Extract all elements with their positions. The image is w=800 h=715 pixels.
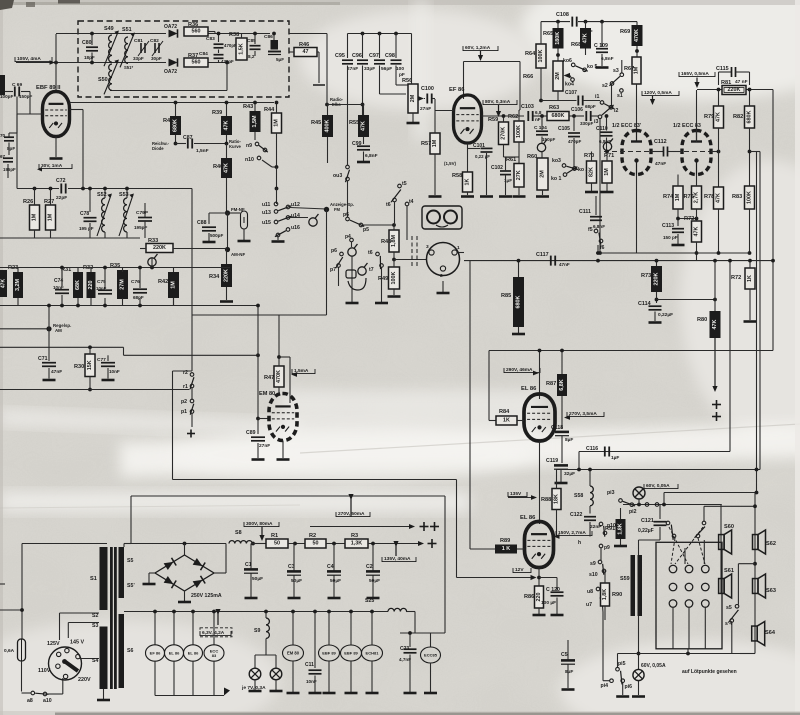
arrow	[215, 609, 220, 625]
wire	[591, 183, 593, 191]
wire	[139, 298, 141, 306]
svg-text:C112: C112	[654, 139, 667, 145]
svg-text:27nF: 27nF	[347, 66, 358, 72]
switch contact n9	[246, 142, 268, 152]
arrow	[409, 524, 415, 529]
wire	[591, 152, 593, 162]
svg-text:100 µF: 100 µF	[541, 600, 556, 606]
resistor (edge) 47K	[0, 270, 7, 297]
capacitor C117	[536, 252, 570, 267]
svg-text:8,2: 8,2	[248, 54, 255, 59]
svg-text:470pF: 470pF	[568, 139, 581, 144]
ground	[143, 583, 156, 586]
ground	[407, 122, 420, 125]
junction	[676, 217, 680, 221]
wire feedback	[172, 371, 174, 480]
wire	[176, 143, 187, 145]
svg-text:ou3: ou3	[333, 173, 342, 179]
svg-text:47K: 47K	[583, 33, 589, 43]
ground	[672, 244, 685, 247]
capacitor C98	[385, 53, 405, 78]
node Regelsp. AM	[46, 326, 51, 331]
resistor R57	[421, 133, 440, 154]
svg-text:C83: C83	[206, 36, 215, 42]
wire	[604, 606, 606, 620]
svg-text:ko6: ko6	[563, 58, 572, 64]
ground	[499, 195, 512, 198]
svg-text:s2: s2	[602, 83, 608, 89]
svg-text:p6: p6	[343, 212, 349, 218]
capacitor C89	[246, 430, 270, 449]
resistor R71	[602, 153, 614, 183]
wire	[17, 298, 19, 306]
wire	[400, 632, 445, 634]
wire	[517, 548, 525, 550]
svg-text:R58: R58	[452, 173, 462, 179]
svg-text:1,8K: 1,8K	[602, 589, 608, 600]
wire	[327, 137, 329, 163]
svg-text:30V, 1mA: 30V, 1mA	[41, 163, 63, 169]
junction	[88, 388, 92, 392]
switch contact ou3	[333, 165, 350, 182]
wire	[505, 176, 507, 196]
svg-text:t7: t7	[369, 267, 374, 273]
wire	[589, 522, 591, 537]
wire anode ECC83b	[696, 90, 698, 142]
tone control	[148, 254, 158, 266]
junction	[394, 32, 398, 36]
arrow	[50, 60, 56, 65]
svg-text:pi4: pi4	[601, 683, 609, 689]
wire	[254, 655, 256, 668]
ground	[238, 240, 251, 243]
svg-text:i3: i3	[594, 119, 598, 125]
ground	[551, 614, 564, 617]
junction	[49, 187, 53, 191]
wire	[16, 114, 18, 133]
wire	[191, 189, 193, 372]
ground	[245, 597, 258, 600]
resistor R74	[663, 186, 683, 209]
switch contact u16	[275, 225, 300, 237]
capacitor C4	[327, 564, 341, 584]
wire	[606, 116, 608, 131]
label 120V, 0,5mA	[642, 90, 679, 96]
switch contact a8-a10	[27, 691, 52, 704]
wire	[718, 90, 720, 107]
wire	[347, 34, 349, 59]
wire	[668, 151, 682, 153]
junction	[150, 266, 154, 270]
wire	[194, 143, 227, 145]
coil S51	[120, 27, 135, 67]
svg-text:R45: R45	[311, 120, 321, 126]
capacitor C88	[197, 220, 223, 238]
switch contact p6-p7	[330, 248, 343, 273]
wire	[67, 623, 69, 639]
svg-text:C119: C119	[546, 458, 558, 464]
wire	[350, 661, 352, 692]
wire	[517, 420, 524, 422]
wire bus	[729, 261, 731, 452]
switch contact i3	[594, 105, 614, 125]
wire	[326, 543, 345, 545]
wire	[21, 91, 30, 93]
wire	[226, 144, 228, 159]
svg-text:C103: C103	[521, 104, 534, 110]
svg-text:R72: R72	[731, 275, 741, 281]
wire cathode EM80	[282, 441, 284, 459]
capacitor C95	[335, 53, 358, 72]
svg-text:R49: R49	[378, 276, 388, 282]
speaker S63	[753, 574, 776, 598]
tube heater EBF 89 b	[341, 645, 362, 661]
svg-text:82K: 82K	[589, 167, 595, 177]
svg-text:56pF: 56pF	[381, 66, 392, 72]
wire	[202, 62, 227, 64]
DIN connector	[426, 243, 460, 280]
wire	[104, 268, 106, 290]
junction	[596, 251, 600, 255]
wire	[468, 148, 481, 150]
wire	[314, 676, 316, 693]
svg-text:1: 1	[457, 245, 460, 251]
wire	[470, 548, 495, 550]
junction	[361, 32, 365, 36]
switch contact s9-s10	[589, 560, 607, 578]
svg-text:R46: R46	[299, 42, 309, 48]
resistor R78	[704, 187, 724, 209]
svg-text:C81: C81	[134, 38, 143, 44]
wire	[289, 357, 291, 403]
switch contact p10-p9	[599, 522, 616, 536]
wire	[371, 612, 373, 646]
resistor R67	[624, 57, 641, 84]
svg-text:110V: 110V	[38, 668, 51, 674]
wire	[350, 612, 352, 646]
wire	[362, 34, 364, 59]
svg-text:470pF: 470pF	[224, 43, 237, 48]
wire	[703, 506, 705, 521]
wire	[351, 256, 353, 302]
wire	[749, 261, 751, 268]
svg-text:1/2 ECC 83': 1/2 ECC 83'	[612, 123, 641, 129]
svg-text:S3: S3	[92, 623, 98, 629]
resistor R26	[23, 199, 40, 230]
svg-text:R43: R43	[243, 104, 253, 110]
wire	[214, 32, 216, 34]
svg-text:t5: t5	[402, 181, 407, 187]
capacitor C99	[352, 141, 378, 159]
junction	[728, 259, 732, 263]
wire	[556, 598, 558, 615]
wire	[749, 90, 751, 107]
svg-text:C115: C115	[716, 66, 729, 72]
ground	[649, 321, 662, 324]
capacitor C108	[556, 12, 593, 35]
resistor R43	[243, 104, 261, 132]
wire	[213, 612, 215, 646]
wire lower rail	[40, 62, 166, 64]
svg-text:145 V: 145 V	[70, 640, 84, 646]
svg-text:5µF: 5µF	[276, 57, 284, 62]
svg-text:33pF: 33pF	[133, 56, 144, 61]
resistor R38	[229, 32, 247, 60]
wire	[583, 100, 600, 102]
svg-text:220K: 220K	[654, 272, 660, 285]
svg-text:S60: S60	[724, 524, 734, 530]
svg-text:27nF: 27nF	[259, 443, 270, 449]
svg-text:R42: R42	[158, 279, 168, 285]
junction	[717, 251, 721, 255]
wire	[621, 60, 623, 73]
wire	[254, 132, 256, 140]
svg-text:i1: i1	[595, 94, 599, 100]
wire	[606, 138, 608, 152]
wire	[589, 470, 591, 487]
junction	[408, 631, 412, 635]
svg-text:s 4: s 4	[725, 621, 732, 627]
wire anode	[482, 115, 525, 117]
wire	[243, 229, 245, 240]
svg-text:1,8K: 1,8K	[618, 523, 624, 534]
svg-text:S62: S62	[766, 541, 776, 547]
wire primary top	[22, 543, 107, 545]
svg-text:6,3V, 4,2A: 6,3V, 4,2A	[202, 630, 225, 636]
svg-text:1M: 1M	[32, 213, 38, 221]
svg-text:AM-NF: AM-NF	[231, 252, 245, 257]
wire	[395, 66, 397, 86]
wire anode EL86	[539, 351, 541, 400]
wire s2-i2	[611, 86, 613, 106]
ground	[616, 695, 629, 698]
wire	[486, 153, 488, 195]
label 1,5mA	[292, 368, 315, 374]
resistor R56	[402, 78, 418, 113]
wire	[638, 540, 640, 555]
junction	[662, 503, 666, 507]
terminal	[405, 202, 409, 206]
wire	[218, 60, 220, 63]
wire	[414, 612, 416, 634]
svg-text:EL 86: EL 86	[521, 386, 537, 392]
junction	[275, 101, 279, 105]
svg-text:p5: p5	[363, 227, 369, 233]
junction	[90, 61, 94, 65]
wire	[338, 268, 340, 287]
svg-text:1M: 1M	[604, 168, 610, 176]
resistor R45	[311, 115, 333, 137]
wire	[61, 268, 63, 287]
ground	[288, 597, 301, 600]
wire	[327, 104, 363, 106]
svg-text:220K: 220K	[224, 269, 230, 282]
svg-text:27nF: 27nF	[420, 106, 431, 112]
speaker S64	[752, 622, 776, 646]
wire bus right	[772, 90, 774, 351]
wire	[16, 97, 18, 134]
svg-text:47K: 47K	[361, 121, 367, 131]
wire	[59, 613, 61, 640]
svg-text:22pF: 22pF	[56, 195, 67, 201]
svg-text:OA72: OA72	[164, 24, 177, 30]
capacitor C85	[247, 38, 261, 59]
svg-text:S6: S6	[127, 648, 133, 654]
wire	[434, 111, 436, 134]
tube heater EM 80	[283, 645, 304, 661]
svg-text:S51: S51	[122, 27, 132, 33]
svg-text:R26: R26	[23, 199, 33, 205]
arrow	[564, 415, 570, 420]
wire	[278, 387, 280, 394]
wire	[541, 116, 543, 130]
svg-text:400K: 400K	[325, 119, 331, 132]
svg-text:C111: C111	[579, 209, 591, 215]
wire	[124, 354, 259, 356]
wire	[363, 105, 365, 116]
arrow	[393, 541, 398, 556]
label 290V, 46mA	[504, 367, 540, 373]
lamp dial lamp 2	[270, 668, 282, 680]
svg-text:60V, 0,05A: 60V, 0,05A	[641, 663, 666, 669]
capacitor C101	[473, 143, 493, 159]
wire	[226, 178, 228, 213]
junction	[753, 562, 757, 566]
wire	[663, 493, 665, 505]
wire	[0, 305, 258, 307]
capacitor C100	[420, 86, 434, 112]
wire	[89, 189, 91, 213]
svg-text:s1: s1	[617, 93, 623, 99]
resistor R31	[61, 267, 83, 298]
wire	[154, 661, 156, 696]
junction	[713, 259, 717, 263]
resistor R37	[184, 53, 208, 67]
wire	[34, 189, 36, 206]
svg-text:0,22 µF: 0,22 µF	[475, 154, 490, 159]
svg-text:R74: R74	[663, 194, 674, 200]
wire lamp bus	[623, 504, 722, 506]
junction	[256, 353, 260, 357]
wire	[504, 156, 520, 158]
svg-text:18pF: 18pF	[84, 55, 95, 60]
junction	[695, 251, 699, 255]
wire	[123, 544, 125, 548]
svg-text:EM 80: EM 80	[259, 391, 275, 397]
tube heater ECH 81	[362, 645, 383, 661]
wire	[29, 92, 31, 115]
junction	[225, 61, 229, 65]
svg-text:120V, 0,5mA: 120V, 0,5mA	[644, 90, 672, 96]
wire	[688, 607, 690, 648]
wire	[714, 261, 716, 311]
wire	[318, 52, 320, 83]
wire	[89, 223, 91, 238]
tube heater ECC 83	[204, 645, 224, 661]
junction	[349, 610, 353, 614]
junction	[538, 349, 542, 353]
wire	[463, 62, 465, 100]
svg-text:80V, 0,3mA: 80V, 0,3mA	[485, 99, 511, 105]
svg-text:EL 86: EL 86	[188, 651, 199, 656]
svg-text:195pF: 195pF	[3, 167, 16, 172]
ground	[178, 601, 191, 604]
wire	[314, 612, 316, 669]
svg-text:EL 86: EL 86	[169, 651, 180, 656]
capacitor C116	[586, 446, 619, 461]
wire	[293, 544, 295, 571]
svg-text:R65: R65	[543, 31, 553, 37]
junction	[748, 88, 752, 92]
svg-text:C84: C84	[199, 51, 208, 57]
earphone	[346, 270, 366, 290]
svg-text:60V, 0,05A: 60V, 0,05A	[646, 483, 670, 489]
wire	[602, 600, 603, 612]
wire	[557, 469, 761, 471]
wire	[61, 270, 63, 286]
wire	[505, 157, 507, 171]
svg-text:FM: FM	[334, 207, 341, 212]
jack Q	[358, 263, 368, 275]
svg-text:a8: a8	[27, 698, 33, 704]
junction	[378, 32, 382, 36]
wire	[622, 683, 624, 696]
wire	[657, 299, 716, 301]
svg-text:0,22µF: 0,22µF	[658, 312, 673, 318]
junction	[277, 355, 281, 359]
arrow	[259, 527, 264, 541]
svg-text:560: 560	[192, 29, 201, 35]
wire	[16, 62, 40, 64]
svg-text:1,5nF: 1,5nF	[196, 148, 209, 154]
wire	[328, 661, 330, 692]
ground	[480, 195, 493, 198]
svg-text:s3: s3	[613, 68, 619, 74]
switch contact t6-t7	[368, 250, 384, 273]
resistor R30	[74, 354, 95, 377]
wire	[48, 306, 50, 362]
wire	[277, 237, 279, 240]
switch contact p2-p1	[181, 399, 194, 415]
svg-text:15K: 15K	[87, 360, 93, 370]
switch contact switch a	[666, 521, 677, 540]
capacitor C70	[0, 133, 15, 151]
capacitor C67	[0, 154, 16, 172]
resistor R76	[684, 186, 702, 209]
resistor R68	[571, 28, 591, 49]
junction	[686, 652, 690, 656]
capacitor C2	[366, 564, 380, 584]
svg-text:ECH81: ECH81	[366, 651, 380, 656]
junction	[272, 32, 276, 36]
label 80V, 0,3mA	[483, 99, 517, 105]
junction	[47, 304, 51, 308]
svg-text:EF 86: EF 86	[449, 87, 465, 93]
svg-text:220K: 220K	[153, 245, 166, 251]
wire	[656, 292, 658, 303]
resistor R60	[527, 154, 548, 190]
wire	[208, 213, 210, 224]
svg-text:12V: 12V	[515, 567, 524, 573]
svg-text:C107: C107	[565, 90, 577, 96]
wire	[218, 50, 220, 54]
svg-text:1,5M: 1,5M	[252, 115, 258, 127]
wire	[173, 298, 175, 306]
wire	[393, 289, 395, 295]
wire	[265, 639, 267, 656]
svg-text:R60: R60	[527, 154, 537, 160]
ground	[585, 191, 598, 194]
